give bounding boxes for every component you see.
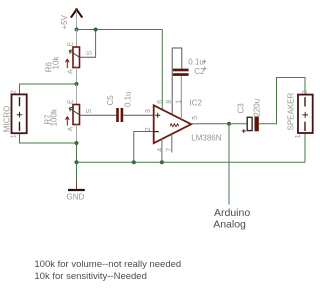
svg-text:2: 2	[145, 127, 152, 131]
pin 8 wire to C2	[172, 48, 182, 115]
microphone MICRO	[12, 94, 27, 133]
speaker SPEAKER	[298, 95, 313, 133]
svg-text:Analog: Analog	[213, 219, 246, 231]
capacitor C5	[116, 108, 123, 122]
svg-text:S: S	[87, 51, 94, 56]
svg-text:2: 2	[11, 90, 18, 94]
wire mic pin2 to node A	[20, 84, 77, 94]
wire C3 to speaker	[259, 78, 305, 124]
svg-text:6: 6	[157, 100, 164, 104]
svg-text:5: 5	[192, 116, 199, 120]
wire mic pin1 to ground node	[20, 133, 77, 143]
svg-text:1: 1	[175, 100, 182, 104]
ground rail wire	[77, 161, 306, 163]
supply +5V symbol	[71, 8, 82, 29]
svg-text:+5V: +5V	[60, 14, 69, 29]
wire +5V rail to IC pin 6	[77, 30, 163, 111]
svg-text:4: 4	[157, 148, 164, 152]
svg-text:E: E	[68, 42, 75, 47]
resistor R7 (trim pot 100k)	[66, 84, 80, 143]
node junction pin4	[160, 160, 164, 164]
svg-text:1: 1	[295, 134, 302, 138]
capacitor C3 (polarized 220u)	[242, 117, 259, 134]
node junction at +5V	[75, 28, 79, 32]
wire C5 to IC pin 3	[123, 114, 154, 116]
wire IC pin 2 feedback loop	[134, 132, 154, 163]
svg-text:3: 3	[145, 109, 152, 113]
node junction R6 S	[94, 28, 98, 32]
resistor R6 (trim pot 10k)	[66, 30, 80, 85]
svg-text:100k: 100k	[50, 108, 59, 126]
svg-text:GND: GND	[67, 193, 85, 202]
wire IC output to junction	[191, 123, 229, 125]
wire speaker pin1 to ground rail	[304, 133, 306, 162]
wire Arduino analog tap	[228, 124, 230, 205]
svg-text:0.1u: 0.1u	[188, 58, 204, 67]
ground GND symbol	[68, 162, 85, 190]
wire junction to C3	[229, 123, 247, 125]
pin 1 wire from C2	[180, 76, 182, 120]
svg-text:SPEAKER: SPEAKER	[287, 92, 296, 130]
svg-text:E: E	[68, 99, 75, 104]
capacitor C2	[173, 69, 189, 76]
node junction GND	[75, 160, 79, 164]
tick marks near C2 labels	[203, 60, 207, 71]
wire node to ground rail	[76, 143, 78, 162]
svg-text:0.1u: 0.1u	[124, 91, 133, 107]
svg-text:8: 8	[166, 100, 173, 104]
pin 7 wire (bypass, unconnected)	[171, 134, 173, 153]
node junction pin2 loop	[132, 160, 136, 164]
wire R7 wiper to C5	[80, 114, 117, 116]
svg-text:LM386N: LM386N	[191, 134, 221, 143]
svg-text:100k for volume--not really ne: 100k for volume--not really needed	[34, 259, 181, 270]
svg-text:MICRO: MICRO	[3, 106, 12, 133]
node junction mic/R7 bottom	[75, 141, 79, 145]
svg-text:Arduino: Arduino	[214, 207, 250, 219]
svg-text:10k: 10k	[52, 56, 61, 70]
pin 4 wire to ground rail	[161, 139, 163, 163]
svg-text:A: A	[68, 127, 75, 132]
op-amp IC2 LM386N	[154, 105, 192, 143]
svg-text:10k for sensitivity--Needed: 10k for sensitivity--Needed	[34, 271, 146, 282]
node junction R6/R7	[75, 82, 79, 86]
node junction output	[227, 122, 231, 126]
svg-text:S: S	[86, 109, 93, 114]
svg-text:7: 7	[166, 148, 173, 152]
wire R6 wiper to +5V rail	[95, 30, 97, 58]
svg-text:220u: 220u	[253, 99, 262, 117]
svg-text:A: A	[68, 69, 75, 74]
svg-text:C5: C5	[106, 95, 115, 106]
svg-text:2: 2	[302, 90, 309, 94]
svg-text:IC2: IC2	[190, 99, 203, 108]
svg-text:1: 1	[11, 134, 18, 138]
svg-text:C3: C3	[237, 103, 246, 114]
